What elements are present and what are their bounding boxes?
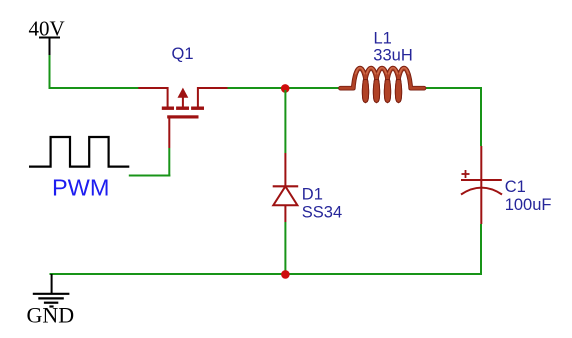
inductor L1 [341, 68, 425, 101]
svg-text:33uH: 33uH [373, 46, 412, 64]
ground [33, 274, 70, 307]
wire output corner [480, 87, 481, 146]
svg-text:Q1: Q1 [172, 45, 194, 63]
diode D1 [273, 153, 299, 222]
svg-text:100uF: 100uF [505, 196, 552, 214]
junction node switch [281, 84, 290, 93]
PWM source waveform [29, 137, 129, 167]
svg-text:C1: C1 [505, 178, 526, 196]
transistor Q1 (P-MOSFET) [138, 87, 227, 148]
capacitor C1 [461, 146, 502, 224]
wire gate to PWM [129, 148, 171, 177]
wire switch node rail [228, 87, 344, 89]
svg-text:GND: GND [27, 303, 75, 328]
power flag 40V [29, 17, 65, 56]
svg-text:SS34: SS34 [302, 204, 342, 222]
wire D1 top [284, 90, 286, 153]
svg-text:L1: L1 [374, 29, 392, 47]
wire D1 bottom [284, 222, 286, 274]
wire C1 bottom [480, 224, 482, 275]
wire ground rail [50, 273, 483, 275]
svg-text:D1: D1 [302, 185, 323, 203]
svg-text:PWM: PWM [52, 175, 109, 201]
wire 40V to rail [49, 55, 139, 89]
junction node ground [281, 270, 290, 279]
